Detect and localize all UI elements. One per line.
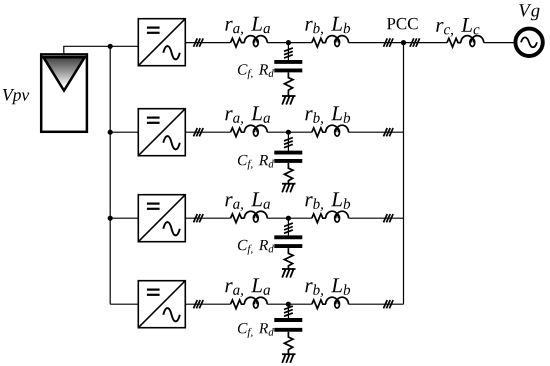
inverter 3 DC/AC converter xyxy=(138,195,185,242)
ground row 1 xyxy=(282,96,296,105)
node DC bus tap 2 xyxy=(108,130,113,135)
node filter junction row 3 xyxy=(286,216,291,221)
wire Lb to PCC bus row 3 xyxy=(349,217,404,219)
node DC bus tap 3 xyxy=(108,216,113,221)
three-phase marker inverter 3 output xyxy=(194,214,204,222)
three-phase marker row 3 at PCC bus xyxy=(384,214,394,222)
three-phase marker row 1 at PCC bus xyxy=(384,38,394,46)
wire La to filter node row 3 xyxy=(267,217,312,219)
three-phase marker capacitor branch row 2 xyxy=(284,138,293,148)
ground row 3 xyxy=(282,269,296,278)
inductor La row 2 xyxy=(244,125,267,136)
inductor Lb row 3 xyxy=(326,211,349,222)
solar PV source Vpv xyxy=(41,54,87,131)
wire Lb to PCC bus row 1 xyxy=(349,42,404,44)
resistor ra row 4 xyxy=(231,300,245,309)
wire La to filter node row 2 xyxy=(267,131,312,133)
label Cf, Rd row 1 xyxy=(238,64,274,79)
inductor La row 1 xyxy=(244,36,267,47)
resistor Rd row 1 xyxy=(284,72,293,96)
wire La to filter node row 1 xyxy=(267,42,312,44)
capacitor Cf row 2 xyxy=(274,153,302,161)
three-phase marker capacitor branch row 4 xyxy=(284,306,293,316)
resistor rb row 1 xyxy=(312,38,326,47)
resistor Rd row 4 xyxy=(284,332,293,354)
inductor Lb row 2 xyxy=(326,125,349,136)
node filter junction row 2 xyxy=(286,130,291,135)
wire filter node down to Cf row 4 xyxy=(287,304,289,318)
wire inverter 4 output xyxy=(185,303,230,305)
inverter 2 DC/AC converter xyxy=(138,109,185,156)
ground row 2 xyxy=(282,184,296,193)
inductor Lb row 1 xyxy=(326,36,349,47)
inverter 1 DC/AC converter xyxy=(138,19,185,66)
wire DC bus to inverter 3 xyxy=(110,217,138,219)
resistor ra row 2 xyxy=(231,128,245,137)
resistor Rd row 3 xyxy=(284,248,293,269)
three-phase marker inverter 2 output xyxy=(194,128,204,136)
resistor ra row 1 xyxy=(231,38,245,47)
capacitor Cf row 4 xyxy=(274,320,302,330)
capacitor Cf row 3 xyxy=(274,237,302,246)
wire filter node down to Cf row 1 xyxy=(287,43,289,61)
three-phase marker capacitor branch row 1 xyxy=(284,48,293,58)
label Cf, Rd row 3 xyxy=(238,240,274,255)
AC grid voltage source Vg xyxy=(515,29,542,56)
label PCC xyxy=(387,18,418,30)
inductor Lb row 4 xyxy=(326,297,349,308)
wire Lb to PCC bus row 4 xyxy=(349,303,404,305)
label ra, La row 2 xyxy=(225,106,270,125)
wire PCC to rc xyxy=(404,42,448,44)
wire DC bus to inverter 1 xyxy=(110,45,138,47)
label rb, Lb row 1 xyxy=(305,17,350,36)
three-phase marker inverter 1 output xyxy=(194,38,204,46)
label ra, La row 4 xyxy=(225,278,270,297)
label ra, La row 1 xyxy=(225,17,270,36)
resistor rb row 4 xyxy=(312,300,326,309)
inductor Lc xyxy=(461,36,484,47)
label Cf, Rd row 2 xyxy=(238,155,274,170)
node filter junction row 4 xyxy=(286,302,291,307)
resistor rb row 2 xyxy=(312,128,326,137)
wire inverter 3 output xyxy=(185,217,230,219)
wire PV positive to DC bus xyxy=(64,46,110,54)
resistor rc xyxy=(447,38,461,47)
node DC bus tap 1 xyxy=(108,44,113,49)
PCC bus vertical wire xyxy=(403,43,405,305)
three-phase marker row 4 at PCC bus xyxy=(384,300,394,308)
resistor rb row 3 xyxy=(312,214,326,223)
label rb, Lb row 3 xyxy=(305,192,350,211)
three-phase marker row 2 at PCC bus xyxy=(384,128,394,136)
wire DC bus to inverter 2 xyxy=(110,131,138,133)
label Vpv xyxy=(3,89,29,104)
resistor ra row 3 xyxy=(231,214,245,223)
three-phase marker capacitor branch row 3 xyxy=(284,223,293,233)
three-phase marker grid branch xyxy=(410,38,420,46)
wire Lb to PCC bus row 2 xyxy=(349,131,404,133)
ground row 4 xyxy=(282,354,296,363)
DC bus vertical wire xyxy=(109,46,111,304)
label Cf, Rd row 4 xyxy=(238,323,274,338)
wire filter node down to Cf row 3 xyxy=(287,218,289,235)
wire filter node down to Cf row 2 xyxy=(287,132,289,151)
label rb, Lb row 2 xyxy=(305,106,350,125)
wire Lc to grid source Vg xyxy=(484,42,514,44)
label rb, Lb row 4 xyxy=(305,278,350,297)
inverter 4 DC/AC converter xyxy=(138,281,185,328)
inductor La row 3 xyxy=(244,211,267,222)
node PCC xyxy=(401,40,406,45)
wire DC bus to inverter 4 xyxy=(110,303,138,305)
node filter junction row 1 xyxy=(286,40,291,45)
label rc, Lc xyxy=(436,18,479,37)
label Vg xyxy=(519,4,539,20)
three-phase marker inverter 4 output xyxy=(194,300,204,308)
wire inverter 1 output xyxy=(185,42,230,44)
wire La to filter node row 4 xyxy=(267,303,312,305)
resistor Rd row 2 xyxy=(284,163,293,184)
wire inverter 2 output xyxy=(185,131,230,133)
capacitor Cf row 1 xyxy=(274,62,302,71)
inductor La row 4 xyxy=(244,297,267,308)
label ra, La row 3 xyxy=(225,192,270,211)
